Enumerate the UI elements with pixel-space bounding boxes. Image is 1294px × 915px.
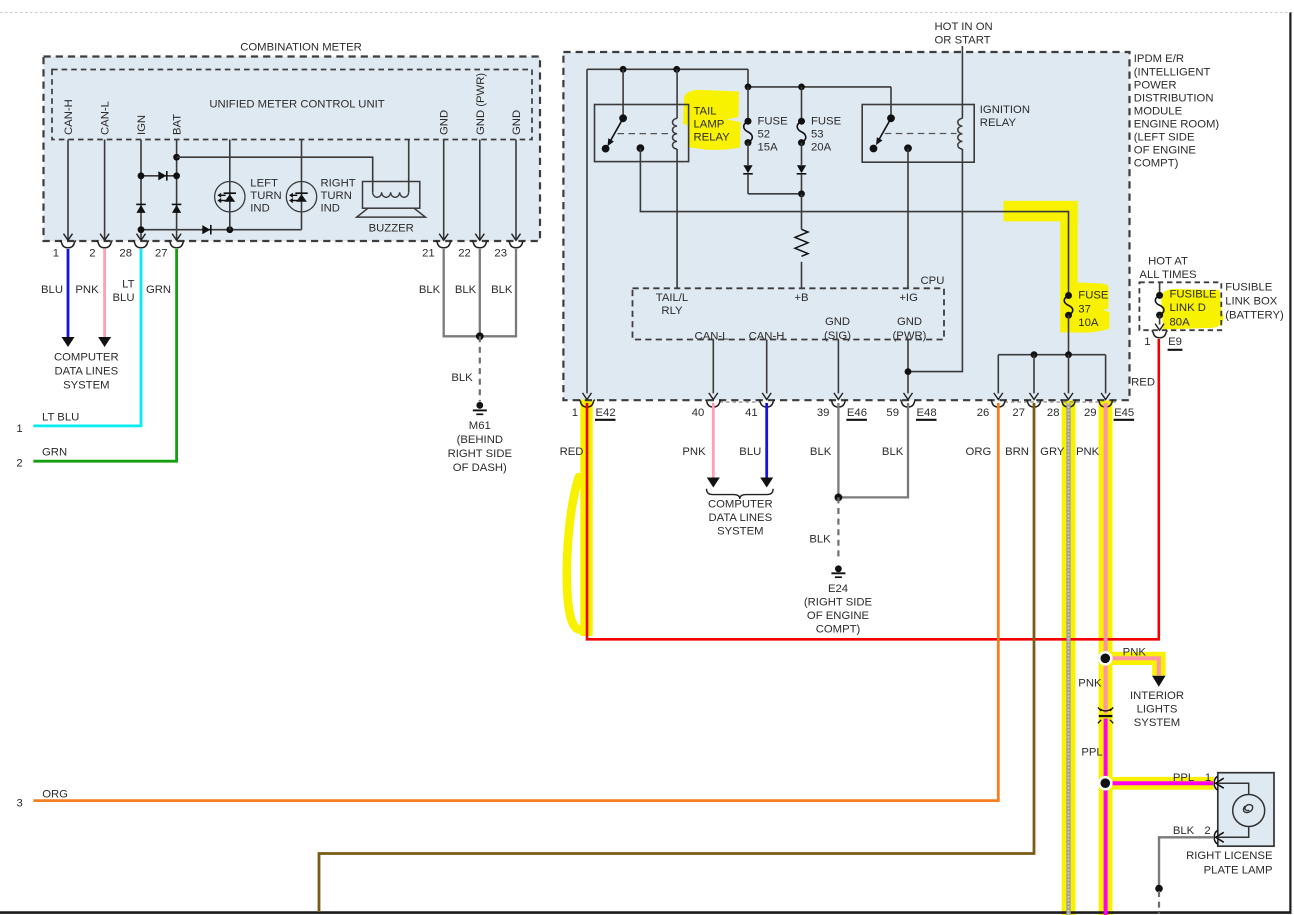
wire pin 23 internal (515, 140, 517, 241)
svg-text:OR START: OR START (935, 34, 991, 46)
highlight PNK/PPL wire pin 29 (1099, 401, 1113, 915)
svg-text:RLY: RLY (661, 305, 683, 317)
IPDM E/R box fill (563, 52, 1129, 400)
svg-text:IPDM E/R: IPDM E/R (1134, 53, 1184, 65)
svg-text:1: 1 (1205, 772, 1211, 784)
wire PNK pin 29 (1104, 403, 1108, 714)
wire GND(SIG) pin 39 (837, 340, 839, 394)
pin 27 connector cup (1026, 400, 1042, 407)
svg-text:OF ENGINE: OF ENGINE (807, 610, 870, 622)
svg-text:SYSTEM: SYSTEM (1134, 717, 1180, 729)
svg-text:PNK: PNK (1123, 646, 1147, 658)
svg-text:27: 27 (155, 248, 168, 260)
tail lamp relay coil (676, 69, 678, 118)
svg-text:BLK: BLK (882, 446, 904, 458)
highlight PNK branch to interior lights system (1105, 652, 1160, 665)
svg-text:41: 41 (745, 407, 758, 419)
svg-text:LAMP: LAMP (694, 118, 725, 130)
ground E24 (835, 565, 842, 572)
svg-text:20A: 20A (811, 142, 832, 154)
highlight fuse 37 wire (vertical) (1060, 211, 1077, 333)
lamp connector pin 2 (1214, 830, 1218, 844)
svg-text:HOT IN ON: HOT IN ON (935, 21, 993, 33)
connector group dashes (720, 401, 761, 403)
wire BLK pin 59 (842, 403, 908, 497)
svg-text:(PWR): (PWR) (893, 330, 927, 342)
svg-text:1: 1 (1144, 336, 1150, 348)
svg-text:E46: E46 (847, 407, 867, 419)
pin 21 connector cup (436, 240, 452, 247)
fusible link box (battery) (1139, 282, 1221, 330)
ignition relay box (862, 105, 974, 163)
buzzer (363, 182, 420, 209)
svg-text:GRY: GRY (1040, 446, 1065, 458)
wire battery bus A (587, 68, 748, 70)
LED left turn indicator (215, 182, 245, 212)
wire PNK pin 2 (103, 249, 106, 337)
svg-text:40: 40 (692, 407, 705, 419)
node GND(PWR)/coil return (905, 368, 912, 375)
fuse 37 (1064, 296, 1073, 316)
svg-text:29: 29 (1084, 407, 1097, 419)
svg-text:UNIFIED METER CONTROL UNIT: UNIFIED METER CONTROL UNIT (209, 99, 384, 111)
wire PPL branch to license lamp (1105, 781, 1213, 785)
svg-text:DATA LINES: DATA LINES (54, 366, 118, 378)
wire to pin at x=1034 (1033, 355, 1035, 394)
svg-text:BLK: BLK (810, 446, 832, 458)
svg-text:ORG: ORG (42, 789, 68, 801)
svg-text:RED: RED (560, 446, 584, 458)
wire left turn indicator (229, 140, 231, 230)
svg-text:27: 27 (1012, 407, 1025, 419)
wire GRN pin 27 (33, 249, 176, 461)
svg-text:BLU: BLU (113, 292, 135, 304)
svg-text:PNK: PNK (1076, 446, 1100, 458)
pin 59 connector cup (900, 400, 916, 407)
svg-text:CAN-L: CAN-L (100, 101, 112, 135)
svg-text:RIGHT: RIGHT (321, 178, 356, 190)
pin 28 connector cup (1061, 400, 1077, 407)
wire TAIL/L RLY (coil to CPU) (676, 149, 678, 288)
wire lamp feed bus (998, 354, 1105, 356)
wire to pin at x=1068.5 (1068, 355, 1070, 394)
highlight fuse 37 label (1062, 283, 1110, 333)
svg-text:BAT: BAT (172, 114, 184, 135)
svg-text:21: 21 (422, 248, 435, 260)
pin 23 connector cup (508, 240, 524, 247)
svg-text:PPL: PPL (1081, 747, 1102, 759)
svg-text:22: 22 (458, 248, 471, 260)
svg-text:39: 39 (817, 407, 830, 419)
svg-text:(RIGHT SIDE: (RIGHT SIDE (804, 597, 873, 609)
junction node BAT top (173, 154, 180, 161)
svg-text:FUSIBLE: FUSIBLE (1170, 289, 1218, 301)
svg-text:PNK: PNK (75, 284, 99, 296)
pin 29 connector cup (1098, 400, 1114, 407)
wire fuse output bus (748, 193, 802, 195)
wire right turn indicator (301, 140, 303, 230)
svg-text:PLATE LAMP: PLATE LAMP (1204, 864, 1273, 876)
wire BLK pin 21 (444, 249, 478, 336)
wire pin 27 internal (176, 140, 178, 241)
svg-text:GRN: GRN (146, 284, 171, 296)
brace computer data lines (707, 489, 774, 499)
svg-text:BLK: BLK (1173, 825, 1195, 837)
wire CAN-L pin 40 (712, 340, 714, 394)
svg-text:PPL: PPL (1173, 772, 1194, 784)
wire BRN pin 27 (319, 403, 1034, 912)
ground M61 (476, 402, 483, 409)
svg-text:LIGHTS: LIGHTS (1137, 704, 1178, 716)
node BLK splice (1155, 885, 1163, 893)
svg-text:59: 59 (886, 407, 899, 419)
unified meter control unit dashed box (52, 70, 532, 140)
wire ORG pin 26 (33, 403, 998, 801)
svg-text:LEFT: LEFT (250, 178, 278, 190)
svg-text:SYSTEM: SYSTEM (717, 526, 763, 538)
LED right turn indicator (286, 182, 316, 212)
wire BLK pin 22 (479, 249, 481, 336)
pin 41 connector cup (759, 400, 775, 407)
svg-text:COMPUTER: COMPUTER (708, 499, 773, 511)
svg-text:RELAY: RELAY (694, 131, 731, 143)
right license plate lamp box (1218, 773, 1274, 847)
pin 2 connector cup (97, 240, 113, 247)
svg-text:GND: GND (511, 110, 523, 135)
wire +IG (907, 148, 909, 288)
svg-text:80A: 80A (1170, 316, 1191, 328)
pin 22 connector cup (472, 240, 488, 247)
ignition relay coil + HOT IN ON feed (961, 46, 963, 118)
combination meter dashed box (44, 57, 541, 242)
svg-text:GND: GND (897, 316, 922, 328)
pin 28 connector cup (133, 240, 149, 247)
svg-text:37: 37 (1078, 303, 1091, 315)
svg-text:GND: GND (825, 316, 850, 328)
pin 26 connector cup (991, 400, 1007, 407)
svg-text:53: 53 (811, 129, 824, 141)
wire LED feed bottom (141, 229, 302, 231)
fuse 52 (747, 87, 749, 121)
svg-text:RED: RED (1131, 377, 1155, 389)
svg-text:HOT AT: HOT AT (1148, 256, 1188, 268)
svg-text:CAN-L: CAN-L (695, 330, 729, 342)
highlight RED wire at pin 1 E42 (580, 400, 592, 637)
svg-text:(BEHIND: (BEHIND (457, 434, 503, 446)
diode D2 on IGN line (136, 203, 146, 205)
svg-text:28: 28 (119, 248, 132, 260)
svg-text:TURN: TURN (250, 190, 281, 202)
svg-text:28: 28 (1047, 407, 1060, 419)
svg-text:IND: IND (250, 203, 269, 215)
svg-text:DISTRIBUTION: DISTRIBUTION (1134, 92, 1214, 104)
wire E42 feed (586, 69, 588, 393)
svg-text:(LEFT SIDE: (LEFT SIDE (1134, 132, 1195, 144)
svg-text:INTERIOR: INTERIOR (1130, 690, 1184, 702)
svg-text:COMPT): COMPT) (1134, 158, 1179, 170)
svg-text:ALL TIMES: ALL TIMES (1139, 269, 1197, 281)
svg-text:BLK: BLK (809, 534, 831, 546)
svg-text:GND (PWR): GND (PWR) (475, 73, 487, 135)
svg-text:CAN-H: CAN-H (63, 99, 75, 135)
svg-text:10A: 10A (1078, 317, 1099, 329)
svg-text:2: 2 (16, 458, 22, 470)
svg-text:COMPT): COMPT) (816, 624, 861, 636)
svg-text:OF ENGINE: OF ENGINE (1134, 145, 1197, 157)
fusible link D (1159, 282, 1161, 295)
bulb (license lamp) (1233, 795, 1265, 827)
svg-text:RIGHT SIDE: RIGHT SIDE (448, 448, 513, 460)
IPDM E/R dashed box (563, 52, 1129, 400)
wire BLK to ground E24 (dashed) (837, 497, 839, 560)
svg-text:2: 2 (89, 248, 95, 260)
wire GRY pin 28 (1066, 403, 1070, 915)
svg-text:BRN: BRN (1005, 446, 1029, 458)
wire to pin at x=998.3 (997, 355, 999, 394)
wire pin 22 internal (479, 140, 481, 241)
highlight tail lamp relay output wire (horizontal) (1004, 201, 1078, 222)
svg-text:DATA LINES: DATA LINES (708, 512, 772, 524)
svg-text:TURN: TURN (321, 190, 352, 202)
svg-text:IGN: IGN (136, 115, 148, 135)
wire PPL (below connector) (1104, 719, 1108, 915)
pin 1 connector cup (60, 240, 76, 247)
wire tail lamp relay output to fuse 37 (640, 148, 1068, 295)
svg-text:E9: E9 (1168, 336, 1182, 348)
wire BLK dashed continuation (1158, 891, 1160, 914)
svg-text:15A: 15A (758, 142, 779, 154)
page bottom border (0, 911, 1291, 914)
svg-text:PNK: PNK (1078, 677, 1102, 689)
wire bus B (748, 69, 891, 118)
svg-text:RIGHT LICENSE: RIGHT LICENSE (1186, 850, 1273, 862)
CPU dashed box (633, 288, 945, 339)
page right border (1289, 13, 1291, 914)
svg-text:+B: +B (794, 292, 808, 304)
tail lamp relay box (595, 105, 689, 162)
svg-text:IND: IND (321, 203, 340, 215)
svg-text:COMPUTER: COMPUTER (54, 352, 119, 364)
svg-text:BLK: BLK (491, 284, 513, 296)
svg-text:E24: E24 (828, 583, 848, 595)
node BLK junction (835, 494, 843, 502)
node LED feed / left turn (226, 226, 233, 233)
wire CAN-H pin 41 (766, 340, 768, 394)
highlight tail lamp relay label (683, 90, 741, 150)
svg-text:+IG: +IG (899, 292, 918, 304)
svg-text:COMBINATION METER: COMBINATION METER (240, 42, 362, 54)
wire BLK pin 23 (482, 249, 516, 336)
junction node BLK (476, 332, 484, 340)
node PPL junction to license lamp (1098, 776, 1113, 791)
wire buzzer to control unit (408, 140, 410, 193)
svg-text:MODULE: MODULE (1134, 105, 1183, 117)
pin 1 connector cup (579, 400, 595, 407)
svg-text:TAIL/L: TAIL/L (656, 292, 688, 304)
wire pin 21 internal (443, 140, 445, 241)
node bus A / relay coil (673, 66, 680, 73)
wire BLK license lamp (1159, 837, 1213, 888)
svg-text:IGNITION: IGNITION (980, 104, 1030, 116)
diode D1 IGN-BAT horizontal (141, 175, 177, 177)
lamp internal wires (1219, 783, 1249, 794)
wire pin 2 internal (104, 140, 106, 241)
svg-text:52: 52 (758, 129, 771, 141)
svg-text:TAIL: TAIL (694, 105, 717, 117)
svg-text:RELAY: RELAY (980, 117, 1017, 129)
svg-text:3: 3 (17, 798, 23, 810)
right license plate lamp box fill (1218, 773, 1274, 847)
highlight GRY wire pin 28 (1062, 401, 1076, 915)
wire BLK pin 39 (837, 403, 839, 497)
pin 39 connector cup (831, 400, 847, 407)
svg-text:M61: M61 (469, 420, 491, 432)
lamp connector pin 1 (1214, 776, 1218, 790)
inline connector on PNK/PPL wire (1100, 709, 1112, 711)
wire ignition coil return to GND(PWR) (908, 149, 962, 372)
svg-text:FUSE: FUSE (811, 116, 842, 128)
node bus A / relay contact (620, 66, 627, 73)
wire PNK pin 40 (712, 403, 715, 478)
svg-text:ENGINE ROOM): ENGINE ROOM) (1134, 119, 1220, 131)
wire PNK branch to interior lights (1105, 658, 1159, 675)
svg-text:ORG: ORG (966, 446, 992, 458)
svg-text:1: 1 (572, 407, 578, 419)
svg-text:23: 23 (494, 248, 507, 260)
svg-text:PNK: PNK (682, 446, 706, 458)
diode D4 on LED feed (202, 225, 210, 234)
node PNK junction to interior lights (1098, 651, 1113, 666)
svg-text:BLK: BLK (451, 372, 473, 384)
svg-text:SYSTEM: SYSTEM (63, 380, 109, 392)
svg-text:FUSE: FUSE (758, 116, 789, 128)
svg-text:(INTELLIGENT: (INTELLIGENT (1134, 66, 1211, 78)
pin 40 connector cup (706, 400, 722, 407)
svg-text:1: 1 (16, 423, 22, 435)
svg-text:LT: LT (122, 279, 134, 291)
page top dotted divider (0, 12, 1294, 14)
wire pin 28 internal (140, 140, 142, 241)
diode D3 on BAT line (172, 203, 182, 205)
svg-text:1: 1 (53, 248, 59, 260)
wire GND(PWR) pin 59 (907, 340, 909, 394)
wire pin 1 internal (67, 140, 69, 241)
highlight PPL branch to license lamp (1105, 777, 1214, 790)
pin 27 connector cup (169, 240, 185, 247)
svg-text:GND: GND (439, 110, 451, 135)
wire LT BLU pin 28 (33, 249, 141, 426)
svg-text:E48: E48 (917, 407, 937, 419)
svg-text:E45: E45 (1114, 407, 1134, 419)
wire to pin at x=1105.6 (1105, 355, 1107, 394)
svg-text:POWER: POWER (1134, 79, 1177, 91)
svg-text:CPU: CPU (921, 275, 945, 287)
wire BLK to ground M61 (dashed) (479, 336, 481, 401)
ignition relay switch (887, 114, 895, 122)
svg-text:2: 2 (1204, 825, 1210, 837)
wire RED net E42 to E9 (587, 339, 1159, 639)
svg-text:26: 26 (977, 407, 990, 419)
svg-text:FUSE: FUSE (1078, 290, 1109, 302)
svg-text:OF DASH): OF DASH) (453, 462, 507, 474)
svg-text:LINK BOX: LINK BOX (1225, 296, 1278, 308)
svg-text:BLU: BLU (739, 446, 761, 458)
svg-text:BLU: BLU (41, 284, 63, 296)
tail lamp relay switch (622, 69, 624, 118)
svg-text:LT BLU: LT BLU (42, 411, 79, 423)
combination meter box fill (44, 57, 541, 242)
highlight fusible link D label (1161, 289, 1224, 330)
svg-text:BLK: BLK (455, 284, 477, 296)
svg-text:FUSIBLE: FUSIBLE (1225, 282, 1273, 294)
svg-text:BUZZER: BUZZER (369, 223, 414, 235)
svg-text:E42: E42 (596, 407, 616, 419)
svg-text:BLK: BLK (419, 284, 441, 296)
wire BLU pin 1 (67, 249, 70, 337)
wire BLU pin 41 (765, 403, 768, 478)
pin 1 E9 connector cup (1152, 330, 1168, 337)
svg-text:LINK D: LINK D (1170, 302, 1206, 314)
wire +B with resistor R1 (801, 194, 803, 230)
svg-text:GRN: GRN (42, 447, 67, 459)
svg-text:(BATTERY): (BATTERY) (1225, 309, 1284, 321)
fuse 53 (801, 87, 803, 121)
wire BAT to buzzer (177, 157, 373, 192)
